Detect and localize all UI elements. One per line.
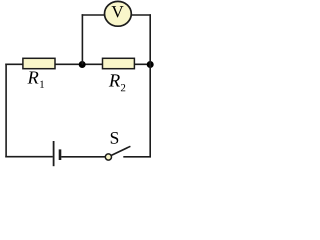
wire: switch fixed contact to bottom right corner	[123, 156, 151, 158]
voltmeter V	[105, 1, 132, 26]
battery short plate (-)	[59, 149, 62, 160]
battery long plate (+)	[53, 141, 55, 166]
wire: voltmeter branch vertical up from left junction	[81, 14, 83, 64]
wire: between R1 and R2	[55, 63, 103, 65]
wire: bottom left segment to battery	[5, 156, 53, 158]
node junction dot left (between R1 and R2, voltmeter tap)	[79, 61, 86, 68]
wire: right vertical side	[149, 14, 151, 157]
wire: R2 right lead to right side	[134, 63, 151, 65]
wire: voltmeter right lead	[131, 14, 151, 16]
switch lever (open)	[111, 146, 130, 155]
wire: left vertical side	[5, 64, 7, 158]
label R2	[109, 74, 120, 86]
wire: main row left lead to R1	[5, 63, 23, 65]
wire: battery to switch	[61, 156, 105, 158]
label R1	[27, 71, 38, 83]
resistor R1	[23, 58, 55, 68]
wire: voltmeter left lead	[82, 14, 105, 16]
node junction dot right	[147, 61, 154, 68]
label V (voltmeter face)	[112, 6, 124, 17]
label S	[111, 132, 118, 144]
resistor R2	[103, 58, 135, 68]
switch S pivot circle	[105, 154, 111, 160]
